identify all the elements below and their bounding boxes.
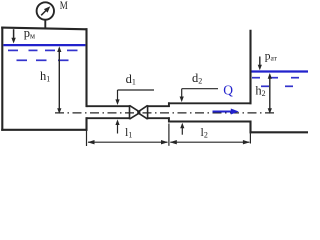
pipe 1 top wall after nozzle [148,105,170,107]
step up to pipe 2 [168,102,170,107]
h1 dimension line [58,48,60,112]
extension line below step [168,124,170,146]
pipe 2 top wall [168,102,252,104]
water dashes right row 2 [261,85,293,87]
l1 dimension line [88,141,168,143]
right tank bottom [250,131,309,133]
h2 dimension line [269,75,271,113]
d1 lower arrow [117,124,119,134]
pressure gauge M [37,2,54,28]
d2 lower arrow [181,127,183,135]
extension line below right tank [249,133,251,143]
water surface right tank [252,70,309,72]
gauge needle arrowhead [44,6,50,12]
water dashes right row 1 [252,77,299,79]
pipe 1 top wall [87,105,130,107]
pipe 1 bottom wall after nozzle [148,117,170,119]
extension line below left tank [86,131,88,146]
p_m arrow [13,29,15,40]
right tank left wall lower [249,121,251,134]
pipe axis centerline [55,112,274,114]
left tank bottom [1,129,87,131]
right tank left wall upper [249,30,251,105]
water surface left tank [3,44,85,46]
left tank right wall upper [85,28,87,107]
left tank right wall lower [85,117,87,131]
d1 leader [118,89,155,91]
water dashes left row 2 [17,59,69,61]
water dashes left row 1 [8,49,78,51]
flow arrow Q [213,111,233,113]
left tank left wall [1,27,3,131]
pipe 2 bottom wall [168,121,252,123]
pipe 1 bottom wall [87,117,130,119]
l2 dimension line [170,141,249,143]
venturi nozzle [130,105,148,119]
d2 leader [182,88,218,90]
svg-text:Q: Q [223,82,233,97]
p_at arrow [259,57,261,68]
svg-text:M: M [60,0,68,12]
left tank top line [1,28,87,30]
